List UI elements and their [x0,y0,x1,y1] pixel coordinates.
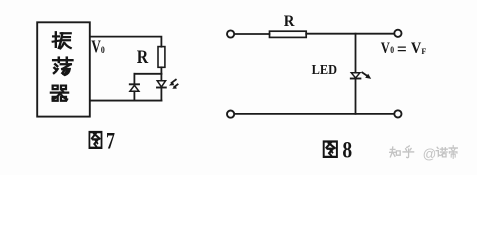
svg-text:=: = [397,39,407,59]
svg-text:8: 8 [342,137,352,163]
svg-text:LED: LED [312,63,337,77]
svg-text:V: V [411,40,421,58]
svg-text:F: F [421,47,426,56]
svg-text:R: R [284,13,296,30]
svg-text:@: @ [423,146,437,161]
svg-text:0: 0 [390,46,394,56]
svg-text:V: V [91,38,101,57]
svg-text:0: 0 [101,44,105,55]
svg-text:7: 7 [106,129,115,154]
svg-text:R: R [137,47,149,67]
svg-text:V: V [381,40,391,58]
